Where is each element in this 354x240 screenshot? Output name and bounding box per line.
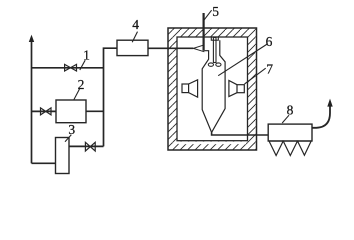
vessel 6 outline left — [202, 51, 211, 133]
box 2 — [56, 100, 86, 123]
hopper triangle 1 — [269, 141, 283, 156]
speaker 7 left: box — [182, 84, 189, 93]
wire: valve 2 branch line — [32, 110, 57, 112]
atomizer flange — [211, 37, 218, 40]
svg-text:6: 6 — [266, 34, 273, 49]
hopper triangle 3 — [298, 141, 312, 155]
pipe 5 vertical line — [203, 13, 205, 51]
vessel 6 outline right — [212, 40, 226, 132]
svg-text:2: 2 — [78, 77, 85, 92]
box 3 — [56, 138, 70, 174]
svg-text:1: 1 — [83, 48, 90, 63]
atomizer feed pipe in neck — [213, 38, 216, 63]
floor gap strip in bottom wall — [178, 142, 246, 145]
wire: vessel outlet to box 8 — [212, 132, 269, 135]
wire: box 4 outlet into chamber — [148, 47, 193, 49]
leader 8 — [282, 115, 289, 123]
wire: bottom run to box 3 — [32, 162, 56, 164]
wire: valve 1 branch line — [32, 67, 104, 69]
nozzle cone — [193, 45, 204, 52]
leader 7 — [245, 68, 266, 84]
chamber wall hatched band — [168, 28, 257, 150]
speaker 7 left: horn — [189, 80, 198, 97]
valve 1 — [65, 64, 77, 71]
chamber inner wall outline — [177, 37, 248, 141]
arrow up at feed inlet — [29, 35, 34, 42]
svg-text:5: 5 — [212, 4, 219, 19]
leader 4 — [132, 32, 137, 43]
svg-text:3: 3 — [68, 122, 75, 137]
valve 3 — [85, 142, 95, 151]
svg-text:8: 8 — [287, 103, 294, 118]
valve 2 — [41, 108, 52, 115]
chamber outer wall outline — [168, 28, 257, 150]
leader 6 — [218, 44, 267, 76]
wire: box 8 exhaust curve — [312, 106, 330, 128]
box 8 — [268, 124, 312, 141]
wire: feed riser (left rail) — [31, 38, 33, 163]
leader 1 — [80, 60, 85, 70]
arrow up exhaust — [327, 99, 332, 107]
svg-text:4: 4 — [132, 17, 139, 32]
leader 5 — [204, 10, 211, 20]
wire: right rail — [104, 48, 118, 146]
wire: box 3 outlet — [69, 145, 104, 147]
leader 2 — [74, 89, 80, 100]
speaker 7 right: horn — [229, 81, 237, 97]
leader 3 — [65, 135, 71, 142]
atomizer disc — [208, 63, 213, 66]
hopper triangle 2 — [283, 141, 297, 156]
wire: box 2 outlet — [86, 110, 104, 112]
svg-text:7: 7 — [266, 62, 273, 77]
speaker 7 right: box — [237, 85, 244, 93]
box 4 — [117, 40, 148, 55]
